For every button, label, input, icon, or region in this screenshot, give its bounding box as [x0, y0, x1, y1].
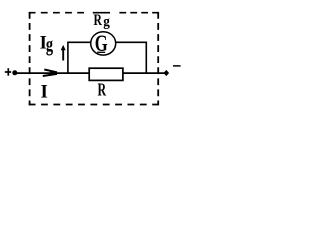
arrow I (right, on main wire) — [44, 70, 57, 73]
svg-text:g: g — [103, 14, 110, 30]
wire: right riser of galvanometer branch — [145, 42, 147, 74]
dashed boundary box right edge — [157, 12, 159, 105]
node: - terminal diamond dot — [164, 70, 170, 76]
dashed boundary box left edge — [29, 12, 31, 105]
node: + terminal dot — [12, 70, 17, 75]
wire: galvanometer branch right segment — [114, 41, 146, 43]
svg-text:I: I — [41, 82, 48, 103]
galvanometer G (circle) — [91, 32, 116, 55]
wire: left riser of galvanometer branch — [67, 42, 69, 74]
wire: main bottom conductor from + node to - node — [15, 72, 167, 74]
wire: galvanometer branch left segment — [68, 41, 93, 43]
+ terminal sign — [5, 71, 11, 73]
svg-text:R: R — [94, 12, 103, 29]
dashed boundary box bottom edge — [29, 104, 159, 106]
dashed boundary box top edge — [29, 12, 86, 14]
arrow Ig (up) — [62, 49, 64, 61]
solid bar over Rg label (border segment) — [93, 12, 110, 14]
resistor R (rectangle) — [89, 68, 123, 80]
svg-text:R: R — [98, 80, 107, 100]
underline of G — [97, 51, 105, 53]
svg-text:g: g — [46, 32, 54, 56]
- terminal sign — [173, 65, 181, 67]
